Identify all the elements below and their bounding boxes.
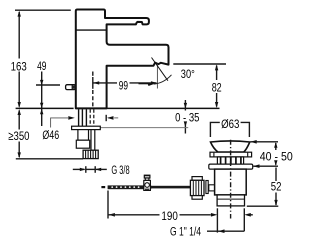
pull-rod knob on body left — [66, 85, 76, 90]
body seam line — [76, 29, 106, 31]
pop-up horizontal rod — [108, 185, 152, 189]
mounting washer — [72, 126, 101, 129]
30 deg diagonal — [152, 58, 168, 81]
drain linkage nut — [192, 177, 202, 181]
rod clamp screw fitting — [144, 175, 151, 190]
linkage axis dashes — [216, 186, 225, 188]
svg-text:≥350: ≥350 — [8, 129, 29, 143]
dimension 163 — [15, 10, 71, 106]
deck line — [16, 107, 74, 109]
svg-text:G 3/8: G 3/8 — [111, 163, 129, 177]
svg-text:52: 52 — [271, 180, 282, 194]
drain centre dashed line — [230, 140, 232, 219]
svg-text:49: 49 — [37, 59, 46, 73]
spout stream axis line — [156, 64, 158, 89]
dimension 40 - 50 — [250, 141, 278, 143]
dimension 0 - 35 — [184, 100, 186, 134]
pop-up rod left dash — [101, 186, 105, 188]
dimension 99 — [93, 72, 157, 89]
hose lines to connector — [91, 130, 95, 150]
flange ring — [209, 164, 253, 169]
supply tubes below body — [79, 109, 87, 126]
svg-text:0 - 35: 0 - 35 — [175, 110, 199, 124]
svg-text:Ø63: Ø63 — [221, 117, 239, 131]
dimension diam 63 — [210, 122, 249, 137]
dimension diam 46 leader — [51, 118, 119, 128]
linkage plate — [206, 181, 208, 194]
threaded shank — [78, 130, 89, 141]
faucet body outline with lever and spout — [76, 10, 169, 109]
dimension G 3/8 — [73, 166, 107, 173]
deck bottom line — [100, 127, 188, 129]
svg-text:40 - 50: 40 - 50 — [260, 149, 293, 163]
drain pop-up cap — [211, 141, 250, 152]
dimension 190 — [107, 191, 109, 219]
cap rim bar — [210, 152, 252, 157]
shank nut — [76, 140, 89, 148]
svg-text:G 1" 1/4: G 1" 1/4 — [170, 225, 201, 239]
waist section — [217, 157, 243, 164]
svg-text:30°: 30° — [181, 67, 195, 81]
dimension 49 — [36, 72, 60, 127]
dimension 82 — [173, 63, 226, 65]
faucet centre dashed line — [92, 90, 94, 108]
dimension >=350 — [16, 111, 83, 159]
dimension 52 — [275, 168, 277, 182]
svg-text:82: 82 — [212, 80, 222, 94]
svg-text:99: 99 — [119, 78, 128, 92]
svg-text:190: 190 — [161, 209, 177, 223]
linkage spigot into drain body — [209, 185, 215, 191]
svg-text:Ø46: Ø46 — [42, 128, 59, 142]
svg-text:163: 163 — [11, 59, 27, 73]
drain body — [215, 169, 247, 195]
tailpiece G 1 1/4 — [217, 195, 244, 206]
30 deg arc with arrow — [139, 83, 151, 85]
knurled hose connector — [83, 150, 98, 158]
